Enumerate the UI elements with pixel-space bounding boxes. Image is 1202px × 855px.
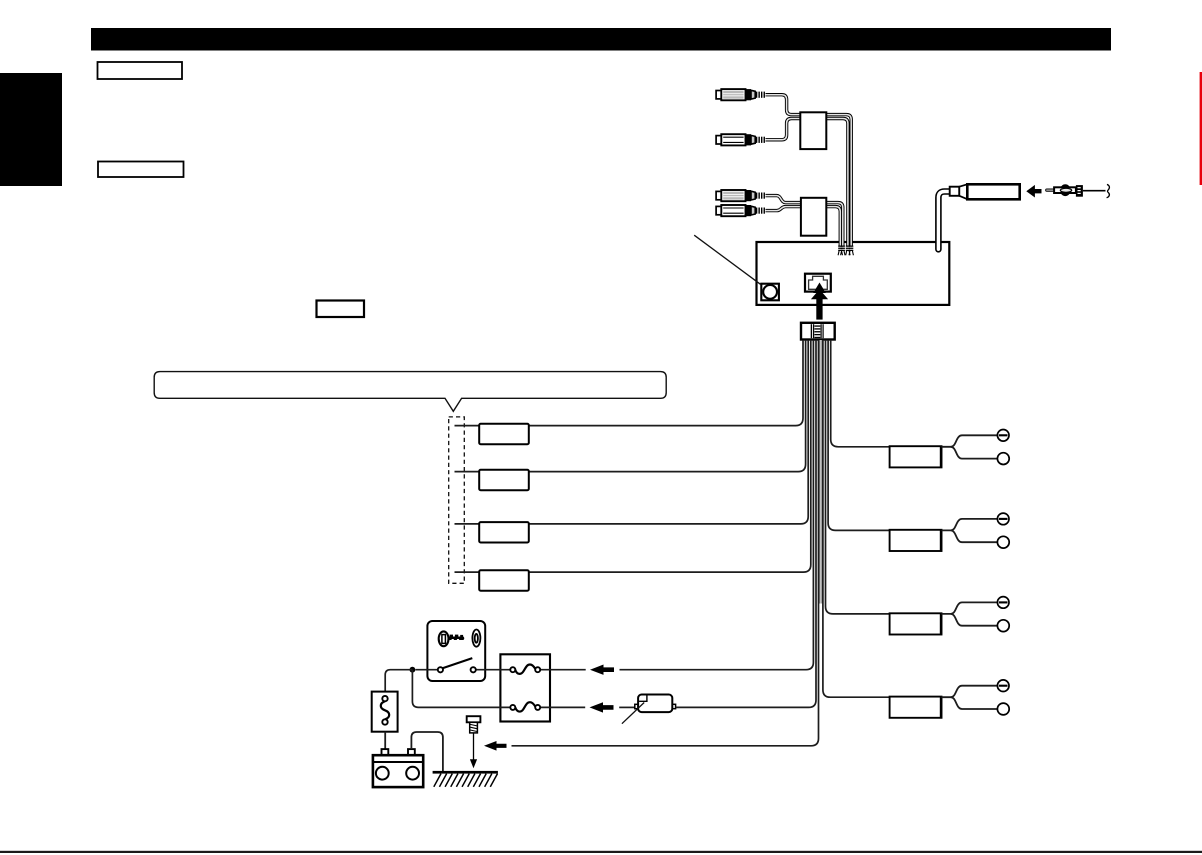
up arrow into changer jack [811, 283, 828, 320]
RCA lead tube T4 [766, 207, 841, 246]
speaker label box SP2 [890, 530, 942, 551]
battery BT1 [373, 749, 423, 787]
RCA plug P3 (rear L) [716, 190, 765, 201]
ground wire to harness [512, 340, 819, 746]
right edge red index mark [1200, 72, 1202, 185]
speaker wire fork SP4 [942, 686, 998, 698]
speaker lead SP3 from harness [826, 340, 890, 614]
speaker label box SP4 [890, 697, 942, 718]
RCA plug P1 (front L) [716, 89, 765, 100]
bottom page scan edge [0, 851, 1202, 853]
fuse F2 (battery) [510, 702, 540, 711]
wire W2 (harness lead 2) [455, 340, 806, 472]
dashed harness group box [449, 417, 465, 583]
title bar [91, 28, 1111, 51]
ignition switch box [427, 621, 485, 681]
chassis ground symbol [433, 771, 498, 787]
pointer to suppressor [622, 703, 644, 724]
antenna plug taper [959, 184, 967, 199]
fuse box [500, 654, 550, 721]
speaker lead SP4 from harness [823, 340, 890, 697]
car antenna plug body [1054, 184, 1076, 196]
label box A (top left) [98, 62, 183, 79]
antenna jack on head unit [761, 284, 779, 301]
ISO harness connector [801, 323, 835, 340]
left edge section tab [0, 73, 62, 186]
junction node [410, 667, 416, 673]
positive terminal SP2 [997, 536, 1009, 548]
antenna plug collar [950, 187, 960, 196]
negative terminal SP3 [997, 597, 1009, 609]
noise filter box U2 [801, 198, 826, 236]
RCA plug P2 (front R) [716, 134, 765, 145]
negative terminal SP2 [997, 513, 1009, 525]
wire fusible link to battery [384, 732, 386, 749]
pointer line to antenna jack [694, 235, 760, 284]
positive terminal SP3 [997, 620, 1009, 632]
antenna plug body [967, 184, 1019, 199]
positive terminal SP1 [997, 453, 1009, 465]
accessory wire arrow [590, 665, 614, 675]
negative terminal SP1 [997, 430, 1009, 442]
keyhole icon [472, 630, 480, 647]
label box C (mid page) [317, 301, 365, 318]
key icon [439, 631, 465, 646]
antenna cable from head unit [938, 192, 949, 250]
screw-to-ground arrow [470, 733, 477, 768]
wire battery negative to chassis ground [411, 732, 443, 771]
wire W4 (harness lead 4) [455, 340, 811, 572]
negative terminal SP4 [997, 680, 1009, 692]
callout box with pointer [154, 372, 666, 412]
wire fuse to battery arrow [538, 706, 586, 708]
battery wire left segment [619, 706, 635, 708]
antenna cable line [1083, 190, 1106, 192]
changer jack on head unit [805, 274, 831, 292]
noise filter box U1 [800, 112, 826, 149]
wire W1 (harness lead 1) [455, 340, 804, 426]
speaker wire fork SP3 [942, 602, 998, 614]
speaker lead SP1 from harness [831, 340, 890, 447]
speaker wire fork SP2 [942, 519, 998, 531]
ground wire arrow [484, 741, 507, 751]
label box for wire W1 [479, 424, 529, 444]
wire W3 (harness lead 3) [455, 340, 809, 524]
car antenna plug pin [1045, 189, 1054, 192]
mounting screw [467, 716, 481, 733]
crimp wire ends inside head unit [838, 246, 842, 256]
battery wire arrow [590, 702, 614, 712]
label box for wire W4 [479, 570, 529, 590]
fusible wire holder (noise suppressor) [635, 695, 676, 713]
speaker label box SP3 [890, 613, 942, 634]
harness gray wire band [819, 340, 823, 604]
wire junction down to main fuse [412, 670, 512, 708]
ignition switch contacts [415, 658, 585, 672]
RCA lead tube T3 [766, 196, 843, 246]
positive terminal SP4 [997, 703, 1009, 715]
RCA lead tube T2 [766, 119, 848, 246]
label box B (left) [98, 162, 184, 178]
cable continuation squiggle [1107, 184, 1110, 197]
fusible link holder [372, 692, 398, 732]
label box for wire W3 [479, 522, 529, 542]
speaker label box SP1 [890, 446, 942, 467]
battery wire to harness [676, 340, 816, 707]
accessory wire to harness [620, 340, 814, 670]
wire junction to fusible link [385, 670, 412, 692]
fuse F1 (accessory) [510, 665, 540, 674]
head unit chassis [757, 242, 950, 305]
car antenna plug end cap [1076, 185, 1083, 197]
antenna insert arrow [1026, 185, 1041, 198]
speaker wire fork SP1 [942, 435, 998, 447]
RCA lead tube T1 [766, 95, 852, 246]
speaker lead SP2 from harness [828, 340, 890, 530]
RCA plug P4 (rear R) [716, 205, 765, 216]
label box for wire W2 [479, 470, 529, 490]
